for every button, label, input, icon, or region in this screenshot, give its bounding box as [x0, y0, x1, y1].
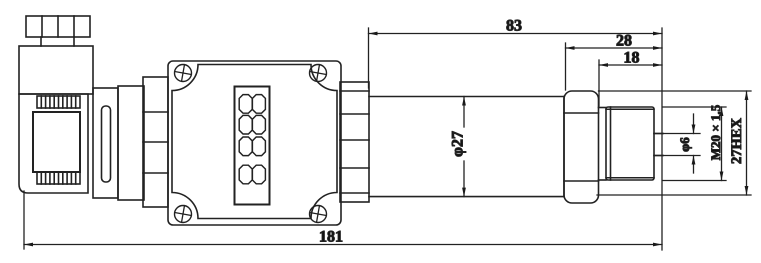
svg-text:181: 181	[319, 228, 343, 245]
svg-text:φ27: φ27	[449, 131, 466, 157]
svg-text:18: 18	[623, 49, 639, 66]
svg-text:M20 × 1.5: M20 × 1.5	[708, 104, 723, 160]
svg-text:28: 28	[616, 32, 632, 49]
svg-text:27HEX: 27HEX	[729, 118, 745, 164]
svg-text:83: 83	[506, 17, 522, 34]
svg-text:φ6: φ6	[677, 137, 692, 152]
